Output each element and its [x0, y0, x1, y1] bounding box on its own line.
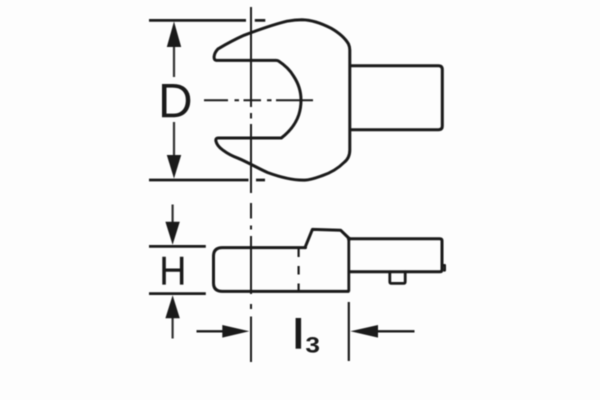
dimension D: vertical dimension line with arrows — [173, 46, 175, 158]
dimension l3: right extension line — [348, 302, 350, 361]
wire: vertical centerline (side view) — [250, 203, 252, 362]
open-end wrench head outline (top view) — [214, 20, 350, 180]
label l3 — [296, 318, 302, 349]
shank (top view) — [351, 66, 443, 130]
wire: vertical centerline of head (top view) — [250, 7, 252, 193]
dimension H: upper arrow — [172, 205, 174, 225]
dimension D: top tick line — [149, 19, 265, 22]
dimension H: lower arrow — [172, 318, 174, 339]
side view: body outline — [214, 248, 349, 292]
dimension D: bottom tick line — [149, 179, 265, 182]
label H — [162, 257, 183, 285]
side view: junction line between body and shank — [347, 237, 350, 292]
side view: boss on top — [305, 229, 349, 247]
dimension l3: right arrow (points left) — [377, 330, 415, 332]
side view: spring pin tab below shank — [390, 272, 405, 284]
side view: shank — [350, 239, 443, 272]
wire: horizontal centerline of head (top view) — [204, 99, 313, 101]
dimension H: top tick line — [149, 245, 206, 248]
dimension H: bottom tick line — [149, 292, 206, 295]
side view: small bump on right edge of shank — [443, 265, 445, 270]
label D — [162, 84, 190, 117]
side view: hidden dashed line — [298, 249, 300, 292]
dimension l3: left arrow (points right) — [197, 330, 224, 332]
